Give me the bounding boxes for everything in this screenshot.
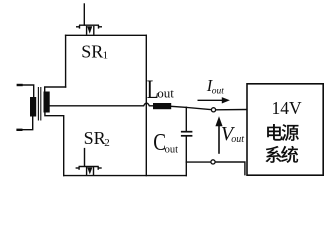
wire return to node circle [186,161,211,163]
svg-text:out: out [157,85,174,100]
transistor SR1 arrow [87,26,92,34]
capacitor C_out top lead [185,107,187,131]
wire secondary bottom lead [45,113,64,176]
capacitor C_out bottom lead [185,136,187,175]
wire secondary top lead [45,87,66,92]
V_out arrow [215,116,222,154]
transformer primary winding bar [30,97,36,117]
wire node circle to box [216,109,247,111]
wire inductor to cap junction [171,106,186,107]
transistor SR1 body [76,25,102,35]
node circle output plus [211,108,215,112]
wire center-tap to inductor with hop [50,103,153,106]
label tong [281,146,298,163]
svg-text:2: 2 [104,137,110,149]
svg-text:14V: 14V [272,98,303,118]
wire SR1 loop top [66,34,147,36]
label yuan [282,124,299,141]
wire right vertical top rail to bottom rail [145,35,147,175]
wire SR1 loop left vertical [65,35,67,87]
transformer secondary winding bar [44,92,50,113]
svg-text:SR: SR [81,42,103,62]
wire primary top lead [18,85,34,98]
transistor SR2 body [76,167,102,176]
inductor L_out body [153,103,171,109]
node circle output minus [211,160,215,164]
svg-text:out: out [231,134,244,145]
label xi [265,146,281,163]
label dian [267,124,283,141]
transformer core lines [38,87,40,121]
svg-text:out: out [165,144,179,155]
transistor SR2 arrow [87,167,92,174]
transistor SR2 gate lead [84,149,86,166]
wire return to box corner [215,162,245,175]
wire primary bottom lead [17,116,32,130]
box 14V power system [247,84,323,175]
svg-text:out: out [212,86,225,96]
I_out arrow [198,97,230,103]
transistor SR1 gate lead [83,4,85,25]
svg-text:1: 1 [103,50,109,62]
wire cap junction to node circle [186,107,211,109]
wire bottom rail [64,175,187,177]
capacitor C_out plates [181,132,193,136]
svg-text:SR: SR [84,128,106,148]
